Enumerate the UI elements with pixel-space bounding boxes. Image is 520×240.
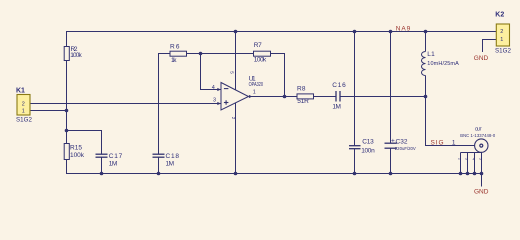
capacitor C18 plates [153, 153, 165, 155]
svg-text:C18: C18 [166, 153, 180, 160]
wire left branch vertical to R2 [66, 32, 68, 47]
resistor R7 body [254, 51, 271, 56]
node ground rail / C32 [389, 172, 393, 176]
capacitor C32 plates [385, 142, 397, 144]
wire R2 bottom to R15 top [66, 61, 68, 144]
capacitor C17 plates [96, 153, 108, 155]
capacitor C16 labels [332, 82, 346, 111]
BNC shield pin 2 wire [460, 153, 462, 174]
svg-text:1M: 1M [109, 160, 118, 167]
node ground rail / opamp pin2 [234, 172, 238, 176]
svg-text:100k: 100k [254, 57, 267, 64]
inductor L1 coil [422, 52, 426, 76]
svg-text:SIG: SIG [431, 140, 444, 147]
svg-text:1: 1 [500, 37, 503, 43]
wire opamp pin5 supply [235, 32, 237, 90]
svg-text:51R: 51R [297, 98, 309, 105]
node top rail / C32 branch [389, 30, 393, 34]
BNC shield pin 3 wire [467, 153, 469, 174]
svg-text:L1: L1 [427, 51, 435, 58]
node ground rail / C18 [157, 172, 161, 176]
svg-text:100k: 100k [70, 52, 82, 59]
node K1 pin1 / left branch [65, 109, 69, 113]
node top rail / opamp pin5 [234, 30, 238, 34]
svg-text:2: 2 [22, 101, 25, 107]
resistor R7 labels [254, 42, 267, 64]
wire top supply rail NA9 [66, 31, 496, 33]
node ground rail / BNC pin5 [480, 172, 484, 176]
wire opamp output to R8 [249, 96, 297, 98]
svg-text:R8: R8 [297, 86, 306, 93]
node left branch / C17 tap [65, 129, 69, 133]
op-amp plus sign [224, 102, 229, 104]
svg-text:220uF/20V: 220uF/20V [395, 146, 416, 151]
node ground rail / C13 [353, 172, 357, 176]
node top rail / C13 branch [353, 30, 357, 34]
wire C18 bottom to rail [158, 157, 160, 173]
svg-text:3: 3 [213, 98, 216, 104]
resistor R8 labels [297, 86, 309, 105]
capacitor C13 plates [349, 145, 361, 147]
node feedback R6 R7 junction [199, 52, 203, 56]
wire tap to C17 [67, 131, 102, 155]
connector K2 [495, 12, 512, 55]
op-amp U1 labels [212, 71, 263, 120]
svg-text:1: 1 [253, 90, 256, 96]
BNC shield pin 4 wire [474, 153, 476, 174]
capacitor C13 labels [361, 139, 375, 155]
svg-text:4: 4 [212, 85, 215, 91]
op-amp pin4 arrowhead [217, 88, 221, 91]
resistor R8 body [297, 94, 314, 99]
op-amp U1 triangle [221, 83, 249, 111]
svg-text:100k: 100k [70, 152, 85, 159]
BNC center pin dot [480, 144, 483, 147]
svg-text:C16: C16 [332, 82, 346, 89]
svg-text:K1: K1 [16, 88, 25, 95]
node ground rail / C17 [100, 172, 104, 176]
capacitor C16 plates [335, 91, 337, 102]
svg-text:NA9: NA9 [396, 25, 411, 32]
svg-text:C17: C17 [109, 153, 123, 160]
resistor R6 body [170, 51, 187, 56]
svg-text:10mH/25mA: 10mH/25mA [427, 61, 459, 67]
svg-text:1M: 1M [332, 104, 341, 111]
svg-text:1M: 1M [166, 160, 175, 167]
wire opamp pin2 to ground rail [235, 103, 237, 174]
svg-text:+: + [391, 137, 395, 144]
node ground rail / BNC pin4 [473, 172, 477, 176]
capacitor C17 labels [109, 153, 123, 167]
svg-text:1k: 1k [171, 57, 177, 64]
svg-text:2: 2 [500, 29, 503, 35]
svg-text:S1G2: S1G2 [495, 48, 512, 55]
wire feedback node down to opamp minus input [201, 54, 222, 90]
resistor R15 body [64, 144, 69, 160]
svg-text:C13: C13 [362, 139, 374, 146]
wire R8 right to C16 [314, 96, 336, 98]
wire R15 bottom to ground rail corner [67, 160, 102, 174]
svg-text:C32: C32 [396, 139, 408, 146]
wire C32 branch from rail [390, 32, 392, 144]
wire bottom ground rail [67, 173, 482, 175]
svg-text:GND: GND [474, 188, 489, 195]
node ground rail / BNC pin3 [466, 172, 470, 176]
node output / L1 branch [424, 95, 428, 99]
svg-text:K2: K2 [495, 12, 504, 19]
op-amp pin3 arrowhead [217, 102, 221, 105]
wire C16 right to L1 node [340, 96, 426, 98]
svg-text:100n: 100n [361, 147, 375, 154]
op-amp minus sign [224, 88, 229, 90]
svg-text:OPA320: OPA320 [249, 82, 264, 88]
wire L1 bottom through output node to SIG corner [426, 76, 475, 146]
resistor R15 labels [70, 144, 85, 158]
svg-text:BNC 1-1337448-0: BNC 1-1337448-0 [460, 133, 496, 138]
connector K1 [16, 88, 33, 124]
resistor R6 labels [170, 43, 180, 64]
svg-text:R7: R7 [254, 42, 262, 49]
wire R6 left down to C18 [159, 54, 171, 155]
resistor R2 labels [70, 46, 82, 59]
svg-text:R6: R6 [170, 43, 180, 50]
BNC shield pin 5 wire [481, 153, 483, 174]
node top rail / L1 branch [424, 30, 428, 34]
BNC output circle [475, 139, 488, 152]
wire C32 bottom to rail [390, 148, 392, 173]
node ground rail / BNC pin2 [459, 172, 463, 176]
wire C13 branch from rail [354, 32, 356, 146]
connector K2 pin1 wire to GND [483, 40, 497, 53]
svg-text:1: 1 [22, 108, 25, 114]
capacitor C18 labels [166, 153, 180, 167]
op-amp pin1 arrowhead [249, 95, 252, 98]
wire R7 right down to output node [271, 54, 285, 97]
svg-text:R15: R15 [70, 144, 82, 151]
wire R6 right to R7 left [187, 53, 254, 55]
svg-text:GND: GND [474, 55, 489, 62]
resistor R2 body [64, 47, 69, 61]
wire K1 pin2 to opamp plus input [30, 103, 221, 105]
wire ground rail to GND symbol [481, 174, 483, 187]
svg-text:OUT: OUT [475, 126, 482, 131]
wire K1 pin1 to left branch [30, 110, 67, 112]
capacitor C32 labels [391, 137, 416, 151]
wire C13 bottom to rail [354, 149, 356, 174]
wire rail to L1 top [425, 32, 427, 52]
wire C17 bottom to rail [101, 157, 103, 173]
svg-text:S1G2: S1G2 [16, 116, 33, 123]
inductor L1 labels [427, 51, 459, 67]
svg-text:1: 1 [452, 140, 456, 147]
BNC shield comb top bar [461, 152, 482, 154]
node output / R7 feedback [283, 95, 287, 99]
